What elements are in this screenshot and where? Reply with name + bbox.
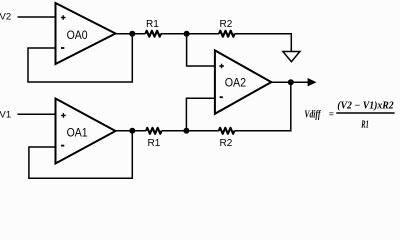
resistor R2 top: [219, 31, 235, 37]
wire OA0 output: [116, 33, 146, 35]
svg-text:(V2 − V1)xR2: (V2 − V1)xR2: [337, 101, 394, 112]
wire R2 to ground: [235, 34, 292, 52]
resistor R1 top: [145, 31, 161, 37]
node junction OA2 output: [288, 79, 294, 85]
svg-text:OA0: OA0: [67, 28, 88, 42]
node junction OA1 output: [129, 128, 135, 134]
svg-text:V2: V2: [0, 12, 11, 23]
svg-text:OA2: OA2: [225, 75, 246, 89]
ground: [283, 52, 300, 62]
svg-text:R1: R1: [146, 19, 159, 30]
resistor R1 bottom: [146, 128, 162, 134]
output arrow: [308, 78, 317, 86]
wire: [18, 113, 56, 115]
label Vdiff formula: [304, 101, 394, 131]
svg-text:R2: R2: [220, 138, 233, 149]
wire OA0 inverting feedback loop: [28, 34, 132, 82]
wire R2 bottom to OA2 output: [234, 82, 290, 131]
op-amp OA2: [215, 50, 271, 113]
op-amp OA1: [56, 99, 116, 164]
wire: [161, 33, 219, 35]
wire OA2 output: [271, 81, 308, 83]
svg-text:R1: R1: [148, 138, 161, 149]
wire: [162, 130, 219, 132]
wire OA1 inverting feedback loop: [29, 131, 132, 179]
svg-text:=: =: [329, 109, 334, 119]
wire node A to OA2 + input: [187, 34, 215, 66]
wire OA1 output: [116, 130, 147, 132]
node junction B: [183, 128, 189, 134]
svg-text:R1: R1: [361, 119, 369, 130]
node junction A: [184, 31, 190, 37]
svg-text:V1: V1: [0, 110, 11, 121]
wire node B to OA2 - input: [186, 98, 215, 131]
svg-text:Vdiff: Vdiff: [304, 109, 321, 120]
node junction OA0 output: [129, 31, 135, 37]
svg-text:R2: R2: [220, 19, 233, 30]
svg-text:OA1: OA1: [67, 126, 88, 140]
resistor R2 bottom (feedback): [219, 128, 235, 134]
op-amp OA0: [56, 3, 116, 64]
wire: [18, 16, 56, 18]
